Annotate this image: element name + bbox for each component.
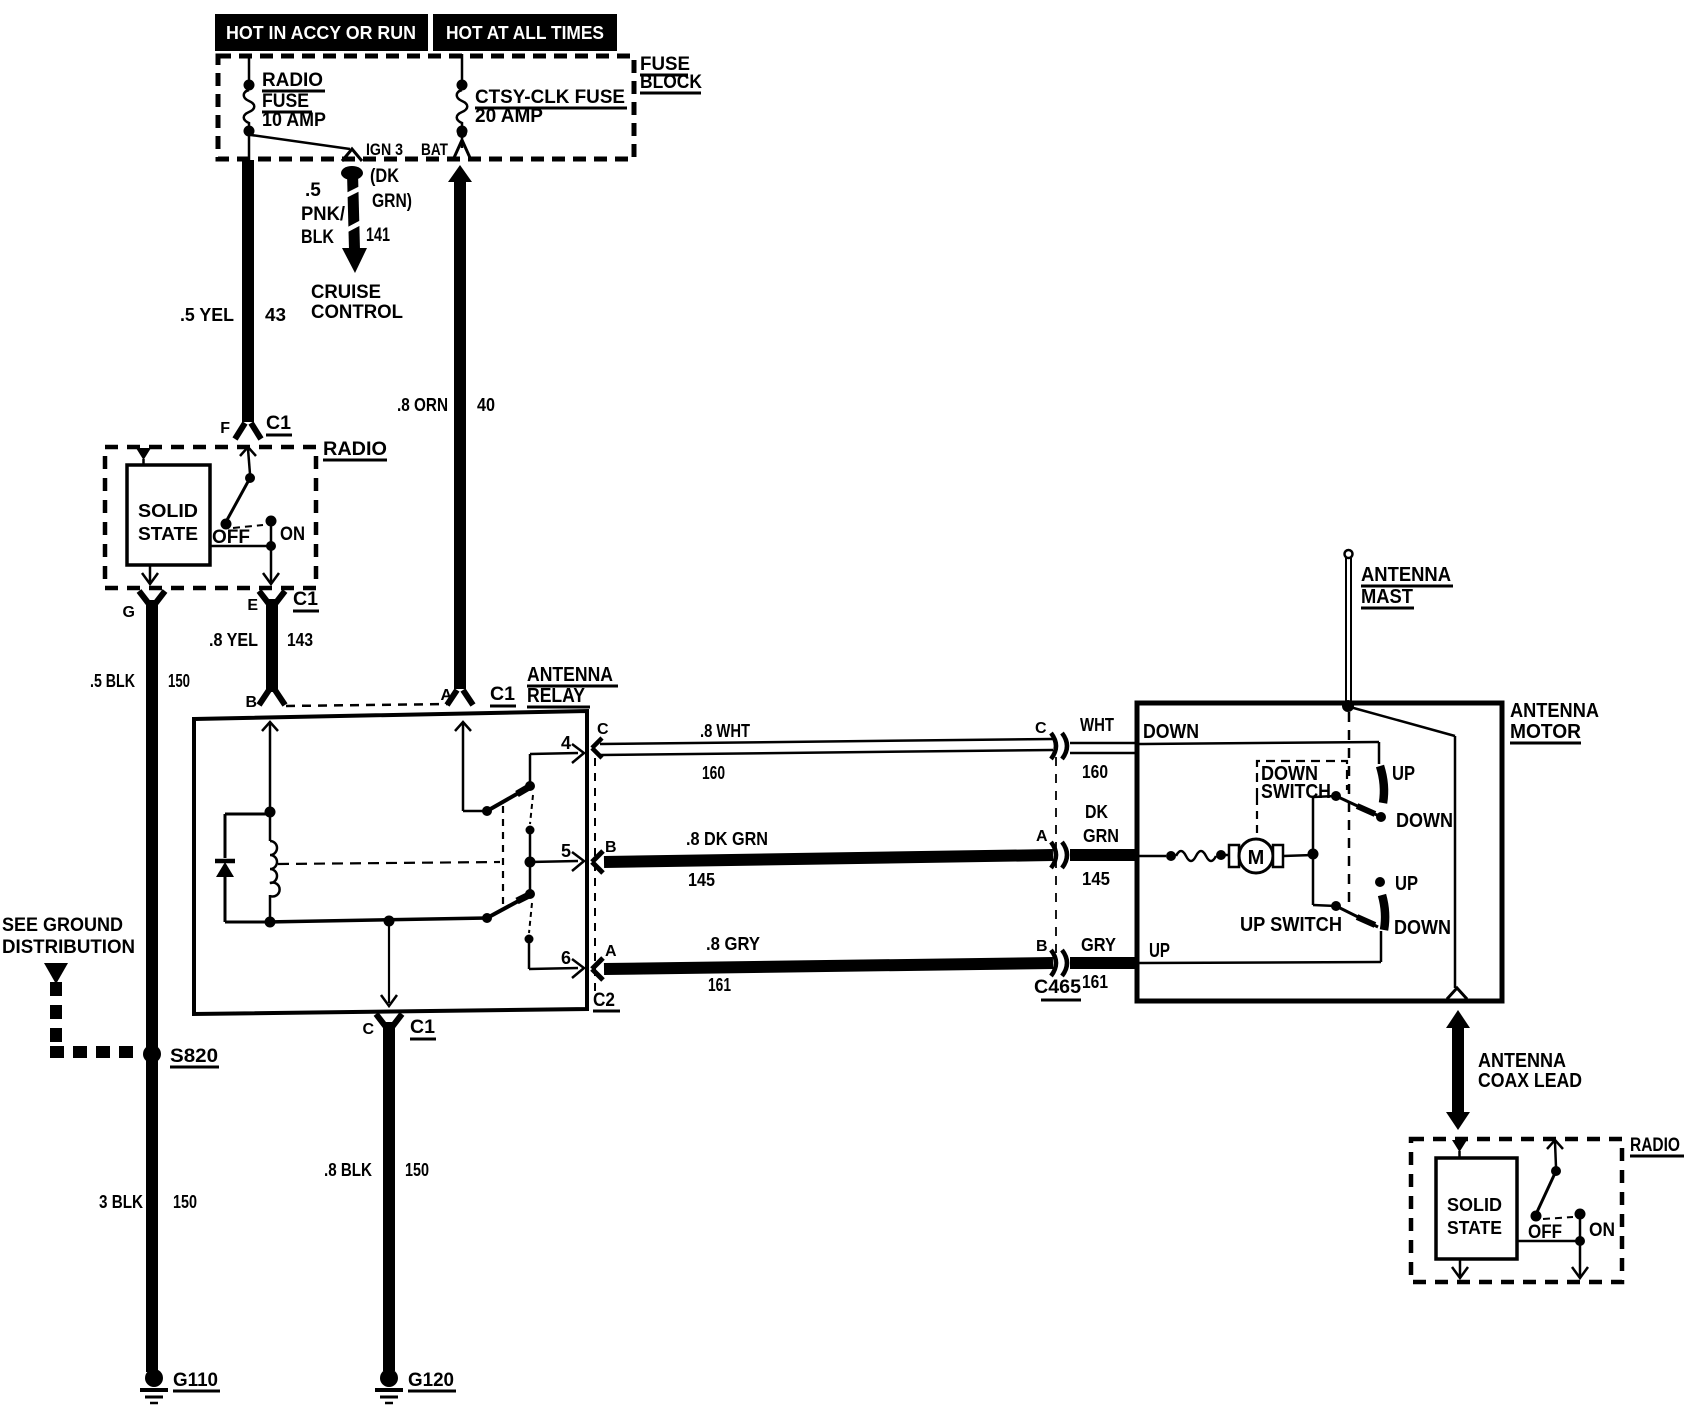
wire: relay pin 6 <box>529 939 584 978</box>
mechanical link (dashed) mast to switches <box>1348 712 1351 905</box>
svg-text:CTSY-CLK FUSE: CTSY-CLK FUSE <box>475 87 625 108</box>
svg-text:150: 150 <box>173 1192 197 1212</box>
connector terminal relay pin C (C2) <box>592 738 602 758</box>
svg-text:BAT: BAT <box>421 140 448 159</box>
svg-text:.5: .5 <box>305 180 321 201</box>
svg-text:SWITCH: SWITCH <box>1261 781 1331 803</box>
svg-text:HOT AT ALL TIMES: HOT AT ALL TIMES <box>446 23 604 43</box>
down switch armature (closed to DOWN) <box>1380 766 1384 803</box>
svg-text:20 AMP: 20 AMP <box>475 106 543 127</box>
antenna motor box <box>1137 703 1502 1001</box>
svg-text:ON: ON <box>280 524 305 545</box>
node: lower switch NO contact <box>525 935 534 944</box>
connector F C1 <box>220 413 292 439</box>
svg-text:40: 40 <box>477 395 495 415</box>
wire: contacts to pin 5 <box>529 830 532 894</box>
svg-text:150: 150 <box>405 1160 429 1180</box>
svg-text:4: 4 <box>561 733 571 753</box>
power feed bar: HOT IN ACCY OR RUN <box>215 14 428 51</box>
svg-text:COAX LEAD: COAX LEAD <box>1478 1070 1582 1092</box>
relay upper armature (pivot) <box>482 787 529 816</box>
svg-text:G: G <box>123 604 135 621</box>
svg-text:RADIO: RADIO <box>1630 1135 1680 1156</box>
wire: relay internal common (coil bottom to lower pivot) <box>266 918 487 922</box>
svg-text:DISTRIBUTION: DISTRIBUTION <box>2 937 135 958</box>
svg-text:161: 161 <box>708 975 731 995</box>
svg-text:IGN 3: IGN 3 <box>366 140 403 159</box>
svg-text:S820: S820 <box>170 1046 218 1067</box>
svg-text:PNK/: PNK/ <box>301 204 346 225</box>
svg-text:C1: C1 <box>266 413 291 434</box>
svg-text:B: B <box>605 839 617 856</box>
relay lower armature (pivot) <box>482 895 529 923</box>
power feed bar: HOT AT ALL TIMES <box>433 14 617 51</box>
pin G terminal <box>123 591 165 621</box>
wire: junction down to relay pin C <box>381 921 397 1006</box>
svg-text:G110: G110 <box>173 1370 218 1391</box>
svg-text:MOTOR: MOTOR <box>1510 721 1582 743</box>
node: coil top junction <box>265 807 276 818</box>
wire: contact to relay pin 4 <box>530 733 584 786</box>
svg-text:ON: ON <box>1589 1220 1615 1241</box>
diode CR1 (across coil) <box>215 814 268 922</box>
connector C465 (pin A, DK GRN) <box>1036 802 1137 889</box>
antenna input terminal (triangle, radio 2) <box>1452 1140 1467 1158</box>
wire: antenna coax lead <box>1446 1010 1470 1130</box>
connector terminal relay pin B (C2) <box>592 851 603 873</box>
wire: solid state U2 to radio 2 ground pin <box>1452 1259 1468 1278</box>
mechanical link (dashed) upper armature <box>530 795 533 824</box>
wire 3 BLK 150 (S820 to G110) <box>99 1192 197 1212</box>
label C465 <box>1034 977 1081 1000</box>
svg-text:C2: C2 <box>593 990 615 1011</box>
svg-text:STATE: STATE <box>138 524 198 544</box>
svg-text:ANTENNA: ANTENNA <box>1361 564 1451 586</box>
ground G110 <box>140 1369 220 1403</box>
wire .5 BLK 150 (radio pin G to splice S820) <box>90 600 190 1372</box>
svg-text:A: A <box>1036 828 1048 845</box>
svg-text:C465: C465 <box>1034 977 1081 998</box>
svg-text:10 AMP: 10 AMP <box>262 110 326 131</box>
radio power switch (OFF/ON) <box>210 447 305 584</box>
connector B C1 (relay) <box>245 690 285 711</box>
svg-text:.8 ORN: .8 ORN <box>397 395 448 415</box>
svg-text:UP: UP <box>1149 940 1170 962</box>
antenna input terminal (triangle) <box>136 448 151 466</box>
svg-text:GRN): GRN) <box>372 191 412 212</box>
svg-text:160: 160 <box>702 763 725 783</box>
svg-text:A: A <box>440 687 452 704</box>
wire: DOWN feed to down switch <box>1137 742 1379 764</box>
svg-text:.8 YEL: .8 YEL <box>209 630 258 650</box>
svg-text:GRY: GRY <box>1081 935 1116 955</box>
wire .8 DK GRN 145 (relay 5/B to C465) <box>604 829 1053 890</box>
svg-text:3 BLK: 3 BLK <box>99 1192 143 1212</box>
svg-text:CRUISE: CRUISE <box>311 282 381 303</box>
node: upper switch NO contact <box>526 826 535 835</box>
svg-text:5: 5 <box>561 841 571 861</box>
fuse: RADIO FUSE 10 AMP <box>244 54 327 160</box>
radio box (bottom right) <box>1411 1135 1684 1282</box>
wire: pin A entry into relay <box>455 722 483 811</box>
svg-text:.8 DK GRN: .8 DK GRN <box>686 829 768 849</box>
wire .5 YEL 43 (radio fuse to radio pin F) <box>180 160 286 422</box>
radio 2 power switch (OFF/ON) <box>1517 1140 1615 1278</box>
wire .8 YEL 143 (radio pin E to relay pin B) <box>209 599 313 692</box>
wire: solid state to radio pin G <box>142 565 158 584</box>
relay coil K1 <box>270 812 280 918</box>
wire: pin B entry into relay <box>262 722 278 808</box>
svg-text:UP: UP <box>1392 763 1415 785</box>
connector face C465 (dashed) <box>1055 757 1057 955</box>
svg-text:C: C <box>1035 720 1047 737</box>
label ANTENNA RELAY <box>527 664 618 707</box>
node: down switch DOWN contact <box>1376 812 1386 822</box>
fuse: CTSY-CLK FUSE 20 AMP <box>457 54 628 137</box>
up switch pivot <box>1313 901 1378 927</box>
node: pin 5 junction <box>525 857 536 868</box>
svg-text:150: 150 <box>168 671 190 691</box>
node: upper switch NC contact <box>525 781 535 791</box>
svg-text:CONTROL: CONTROL <box>311 302 403 323</box>
svg-text:MAST: MAST <box>1361 586 1413 608</box>
label FUSE BLOCK <box>640 54 702 93</box>
mechanical link (dashed) coil to armatures <box>278 806 503 908</box>
svg-text:160: 160 <box>1082 762 1108 782</box>
svg-text:RADIO: RADIO <box>323 439 387 460</box>
connector C465 (pin C, WHT) <box>1035 715 1137 782</box>
svg-text:.8 BLK: .8 BLK <box>324 1160 372 1180</box>
svg-text:6: 6 <box>561 948 571 968</box>
mechanical link (dashed) lower armature <box>529 903 532 933</box>
svg-text:SOLID: SOLID <box>138 501 198 521</box>
svg-text:C1: C1 <box>293 589 318 610</box>
solid state block U2 (radio 2) <box>1436 1158 1517 1259</box>
label ANTENNA MAST <box>1361 564 1453 608</box>
svg-text:B: B <box>245 694 257 711</box>
node: motor junction <box>1308 849 1319 860</box>
svg-text:M: M <box>1248 847 1265 869</box>
node: junction to pin C <box>384 916 395 927</box>
svg-text:C1: C1 <box>410 1017 435 1038</box>
label SEE GROUND DISTRIBUTION <box>2 915 135 958</box>
radio box (top left) <box>105 439 387 588</box>
svg-text:RADIO: RADIO <box>262 70 323 91</box>
svg-text:HOT IN ACCY OR RUN: HOT IN ACCY OR RUN <box>226 23 416 43</box>
svg-text:ANTENNA: ANTENNA <box>1510 700 1599 722</box>
solid state block U1 (radio) <box>127 465 210 565</box>
svg-text:(DK: (DK <box>370 166 399 187</box>
svg-text:UP: UP <box>1395 873 1418 895</box>
wire: mast to coax tap <box>1350 707 1467 999</box>
wire .8 BLK 150 (relay pin C to G120) <box>324 1022 429 1371</box>
off-page arrow (ground distribution) <box>44 963 68 984</box>
wire .5 PNK/BLK 141 to cruise control (arrow) <box>341 166 367 273</box>
connector C2 (relay side, dashed face) <box>593 758 620 1011</box>
label ANTENNA MOTOR <box>1510 700 1599 743</box>
svg-text:DK: DK <box>1085 802 1108 822</box>
node: coil bottom junction <box>265 917 276 928</box>
svg-text:C: C <box>597 721 609 738</box>
connector face C1 (dashed link B to A) <box>286 704 450 706</box>
wire: motor junction to both switch pivots <box>1312 797 1315 905</box>
svg-text:ANTENNA: ANTENNA <box>1478 1050 1566 1072</box>
svg-text:STATE: STATE <box>1447 1218 1502 1238</box>
label ANTENNA COAX LEAD <box>1478 1050 1582 1092</box>
node: lower switch NC contact <box>525 889 535 899</box>
svg-text:DOWN: DOWN <box>1396 810 1453 832</box>
svg-text:G120: G120 <box>408 1370 454 1391</box>
svg-text:FUSE: FUSE <box>262 91 309 112</box>
ground G120 <box>375 1369 456 1403</box>
splice S820 <box>143 1045 219 1067</box>
svg-text:C: C <box>362 1021 374 1038</box>
svg-text:A: A <box>605 943 617 960</box>
pin E terminal / connector C1 <box>247 589 319 614</box>
wire: down switch pivot <box>1313 791 1379 816</box>
wire .8 ORN 40 (BAT to relay pin A) <box>397 165 495 689</box>
svg-text:WHT: WHT <box>1080 715 1114 735</box>
terminal IGN 3 <box>342 140 403 161</box>
terminal BAT <box>421 128 471 160</box>
up switch armature (resting on DOWN) <box>1382 895 1385 930</box>
label (DK GRN) <box>370 166 412 212</box>
svg-text:.8 WHT: .8 WHT <box>700 721 750 741</box>
svg-text:UP SWITCH: UP SWITCH <box>1240 914 1342 936</box>
svg-text:C1: C1 <box>490 684 515 705</box>
svg-text:.8 GRY: .8 GRY <box>706 934 760 954</box>
svg-text:E: E <box>247 597 258 614</box>
svg-text:BLK: BLK <box>301 227 334 248</box>
svg-text:SEE GROUND: SEE GROUND <box>2 915 123 936</box>
svg-text:161: 161 <box>1082 972 1108 992</box>
antenna mast <box>1342 550 1354 712</box>
svg-text:SOLID: SOLID <box>1447 1195 1502 1215</box>
connector A C1 (relay) <box>440 684 516 706</box>
destination label CRUISE CONTROL <box>311 282 403 323</box>
svg-text:.5 BLK: .5 BLK <box>90 671 135 691</box>
antenna relay box K1 <box>194 711 587 1014</box>
svg-text:.5 YEL: .5 YEL <box>180 305 234 325</box>
label DOWN SWITCH (dashed box) <box>1257 761 1347 837</box>
label .5 PNK/BLK <box>301 180 346 248</box>
svg-text:BLOCK: BLOCK <box>640 72 702 93</box>
wire: fuse output to IGN 3 terminal <box>251 135 350 149</box>
wire .8 GRY 161 (relay 6/A to C465) <box>604 934 1053 995</box>
wire: relay pin 5 <box>530 841 584 871</box>
fuse block enclosure <box>218 56 634 159</box>
svg-text:RELAY: RELAY <box>527 685 586 707</box>
svg-text:ANTENNA: ANTENNA <box>527 664 613 686</box>
wire .8 WHT 160 (relay 4/C to C465) <box>600 721 1053 783</box>
connector terminal relay pin A (C2) <box>592 958 603 980</box>
svg-text:43: 43 <box>265 305 286 325</box>
svg-text:141: 141 <box>366 225 390 246</box>
connector C C1 (relay bottom) <box>362 1014 436 1039</box>
connector C465 (pin B, GRY) <box>1036 935 1137 992</box>
wire: UP feed line <box>1137 962 1381 963</box>
svg-text:145: 145 <box>688 870 715 890</box>
svg-text:F: F <box>220 420 230 437</box>
motor M1 <box>1137 839 1313 873</box>
wire (dashed) to splice S820 <box>50 982 142 1052</box>
svg-text:GRN: GRN <box>1083 826 1119 846</box>
svg-text:DOWN: DOWN <box>1394 917 1451 939</box>
svg-text:B: B <box>1036 938 1048 955</box>
node: up switch UP contact (open) <box>1375 877 1385 887</box>
svg-text:143: 143 <box>287 630 313 650</box>
svg-text:DOWN: DOWN <box>1143 721 1199 743</box>
svg-text:145: 145 <box>1082 869 1110 889</box>
wire: up switch to UP feed <box>1380 931 1383 962</box>
